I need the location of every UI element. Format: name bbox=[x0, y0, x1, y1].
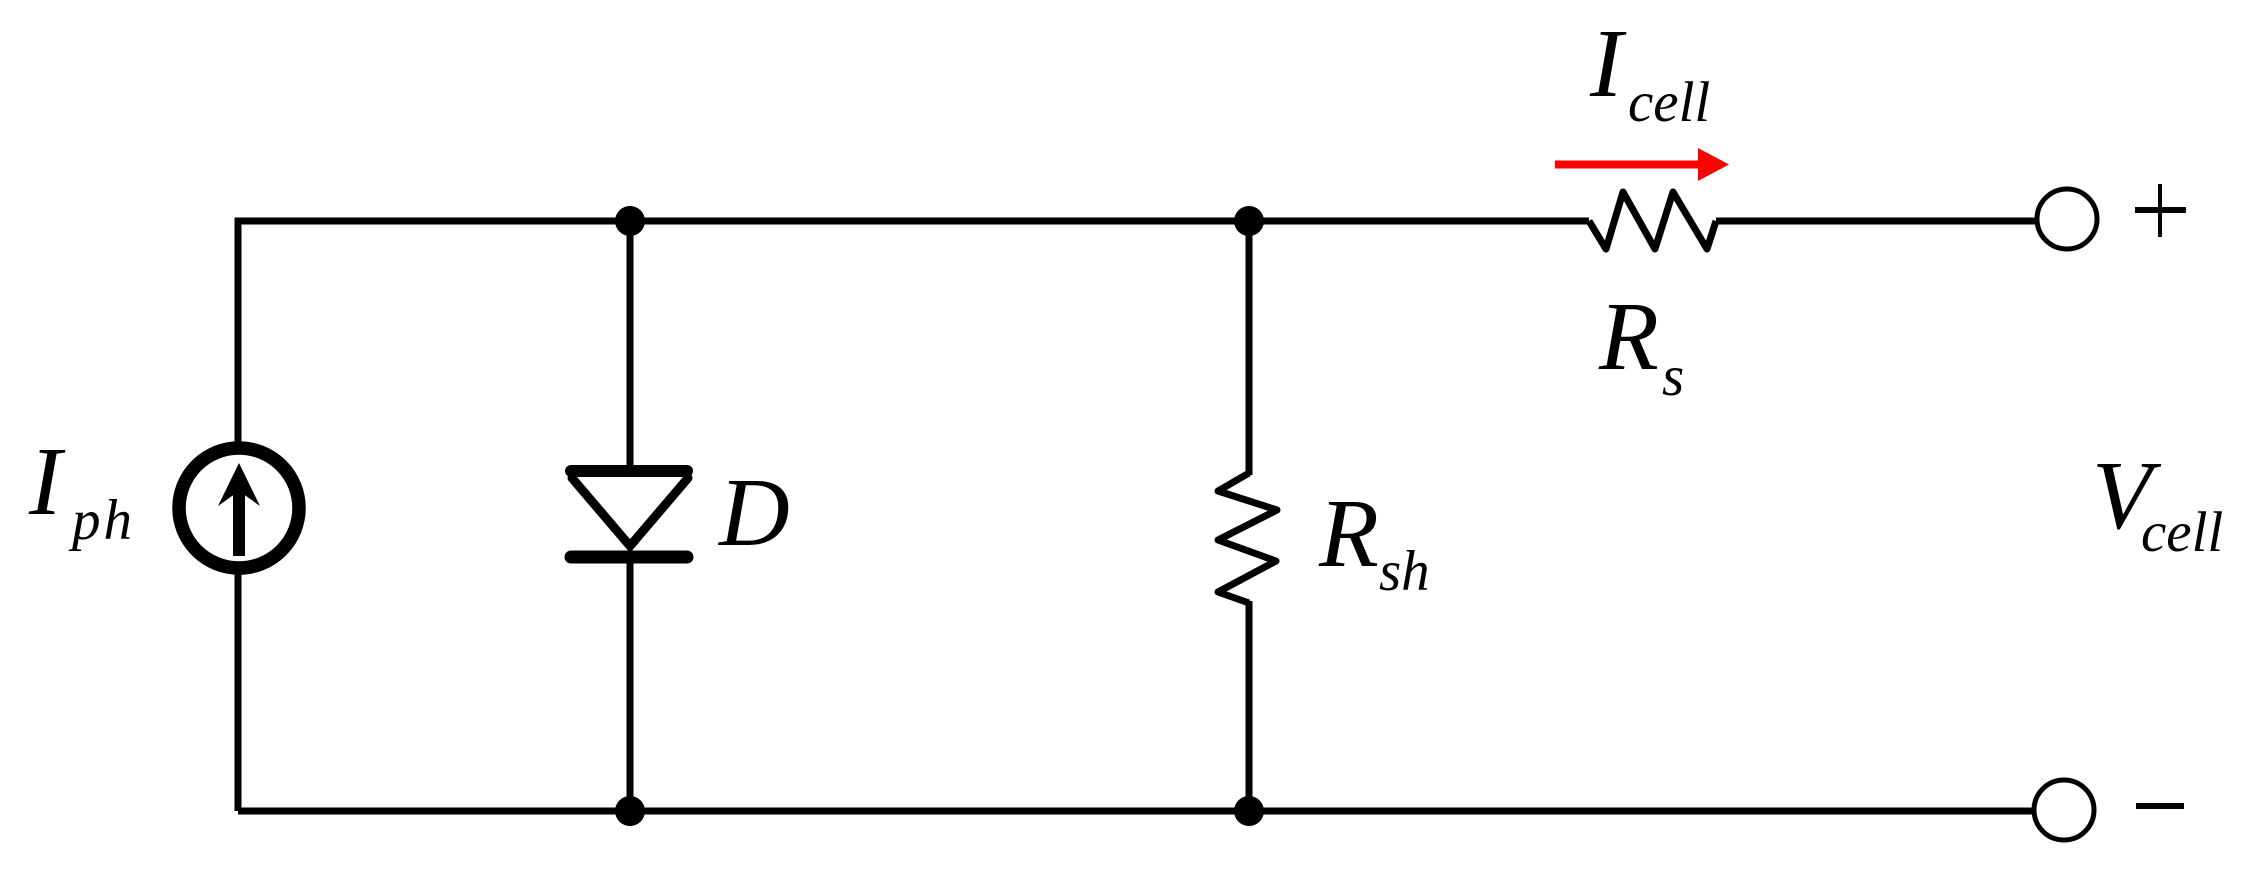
svg-text:D: D bbox=[717, 459, 790, 567]
resistor Rs zigzag bbox=[1589, 192, 1716, 249]
diode D triangle bbox=[572, 478, 688, 546]
svg-text:I: I bbox=[1589, 10, 1627, 118]
wire diode branch lower bbox=[627, 555, 634, 811]
terminal - circle bbox=[2034, 780, 2094, 840]
current source Iph arrow bbox=[218, 463, 260, 556]
wire diode branch upper bbox=[627, 221, 634, 473]
node bottom diode junction bbox=[615, 796, 645, 826]
wire top right bbox=[1716, 218, 2036, 225]
svg-text:cell: cell bbox=[2141, 501, 2223, 564]
svg-text:cell: cell bbox=[1628, 71, 1710, 134]
terminal + circle bbox=[2037, 189, 2097, 249]
svg-text:s: s bbox=[1662, 345, 1684, 408]
node bottom shunt junction bbox=[1234, 796, 1264, 826]
svg-text:sh: sh bbox=[1379, 540, 1430, 603]
svg-text:I: I bbox=[28, 428, 66, 536]
node top diode junction bbox=[615, 206, 645, 236]
svg-text:R: R bbox=[1318, 480, 1379, 588]
wire bottom bbox=[238, 808, 2033, 815]
svg-text:R: R bbox=[1598, 283, 1659, 391]
label plus bbox=[2135, 184, 2186, 237]
wire shunt branch lower bbox=[1246, 601, 1253, 811]
resistor Rsh zigzag bbox=[1218, 473, 1277, 603]
diode D cathode bar bbox=[571, 551, 687, 564]
node top shunt junction bbox=[1234, 206, 1264, 236]
wire top bbox=[238, 221, 1589, 811]
current arrow Icell (red) bbox=[1555, 148, 1729, 181]
label minus bbox=[2136, 803, 2184, 809]
wire shunt branch upper bbox=[1246, 221, 1253, 475]
svg-text:ph: ph bbox=[68, 489, 135, 552]
current source Iph circle bbox=[179, 448, 299, 568]
diode D anode bar bbox=[571, 465, 687, 477]
